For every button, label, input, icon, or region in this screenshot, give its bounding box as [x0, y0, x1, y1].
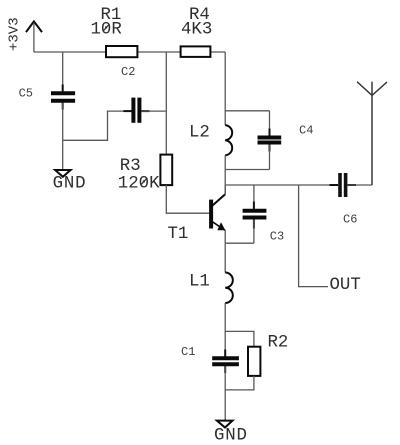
svg-text:GND: GND	[53, 175, 87, 194]
antenna	[357, 82, 387, 185]
svg-text:GND: GND	[214, 427, 248, 445]
ground GND1	[55, 170, 71, 177]
capacitor C1	[212, 350, 239, 374]
capacitor C3 stem top	[253, 185, 255, 209]
wire C5 bottom	[62, 103, 64, 141]
wire top rail	[34, 51, 225, 53]
wire L2 bottom to collector node	[224, 155, 226, 194]
wire C1 bottom to GND2	[224, 366, 226, 420]
wire C2 to base node	[141, 110, 166, 112]
resistor R3	[160, 155, 172, 186]
R3 labels	[118, 157, 160, 193]
wire emitter junction	[225, 242, 254, 244]
capacitor C3 stem bottom	[253, 220, 255, 244]
wire C6 to antenna	[348, 184, 373, 186]
capacitor C4	[258, 129, 282, 152]
svg-text:120K: 120K	[118, 174, 160, 193]
svg-text:C6: C6	[343, 213, 357, 227]
wire collector to C6	[225, 184, 337, 186]
wire main vertical (rail to L2)	[224, 52, 226, 125]
wire emitter to L1	[224, 243, 226, 272]
inductor L2	[225, 125, 232, 155]
capacitor C6	[330, 173, 357, 197]
R4 labels	[181, 6, 212, 39]
wire to C2 (L-shape)	[63, 111, 131, 140]
R1 labels	[91, 6, 122, 39]
wire C4 top stem	[269, 111, 271, 136]
transistor T1	[209, 185, 225, 243]
capacitor C2	[123, 98, 149, 123]
wire C4 bottom stem	[269, 145, 271, 170]
svg-text:T1: T1	[168, 225, 189, 244]
wire C5 drop	[62, 52, 64, 92]
svg-text:L1: L1	[189, 273, 210, 292]
svg-text:OUT: OUT	[330, 276, 361, 295]
wire R2 top branch	[225, 331, 254, 346]
svg-text:L2: L2	[189, 124, 210, 143]
wire GND1 drop	[62, 140, 64, 170]
svg-text:4K3: 4K3	[181, 20, 212, 39]
+3V3 power arrow	[26, 21, 42, 52]
inductor L1	[225, 273, 233, 304]
wire R3 branch vertical	[165, 52, 167, 155]
capacitor C5	[51, 85, 75, 110]
wire tank loop top	[225, 110, 269, 112]
capacitor C3	[243, 202, 267, 229]
resistor R1	[106, 46, 137, 57]
ground GND2	[217, 421, 233, 428]
wire OUT branch	[299, 185, 328, 287]
svg-text:+3V3: +3V3	[7, 17, 23, 51]
svg-text:C1: C1	[181, 345, 195, 359]
svg-text:C5: C5	[19, 87, 33, 101]
wire R3 to base	[166, 185, 209, 213]
resistor R4	[181, 46, 211, 57]
wire L1 to C1 node	[224, 303, 226, 356]
svg-text:C2: C2	[121, 65, 135, 79]
svg-text:R2: R2	[268, 334, 289, 353]
svg-text:C3: C3	[270, 230, 284, 244]
svg-text:10R: 10R	[91, 20, 122, 39]
resistor R2	[248, 347, 260, 376]
wire R2 bottom branch	[225, 376, 254, 390]
wire tank loop bottom	[225, 169, 269, 171]
svg-text:R3: R3	[120, 157, 141, 176]
svg-text:C4: C4	[299, 124, 313, 138]
